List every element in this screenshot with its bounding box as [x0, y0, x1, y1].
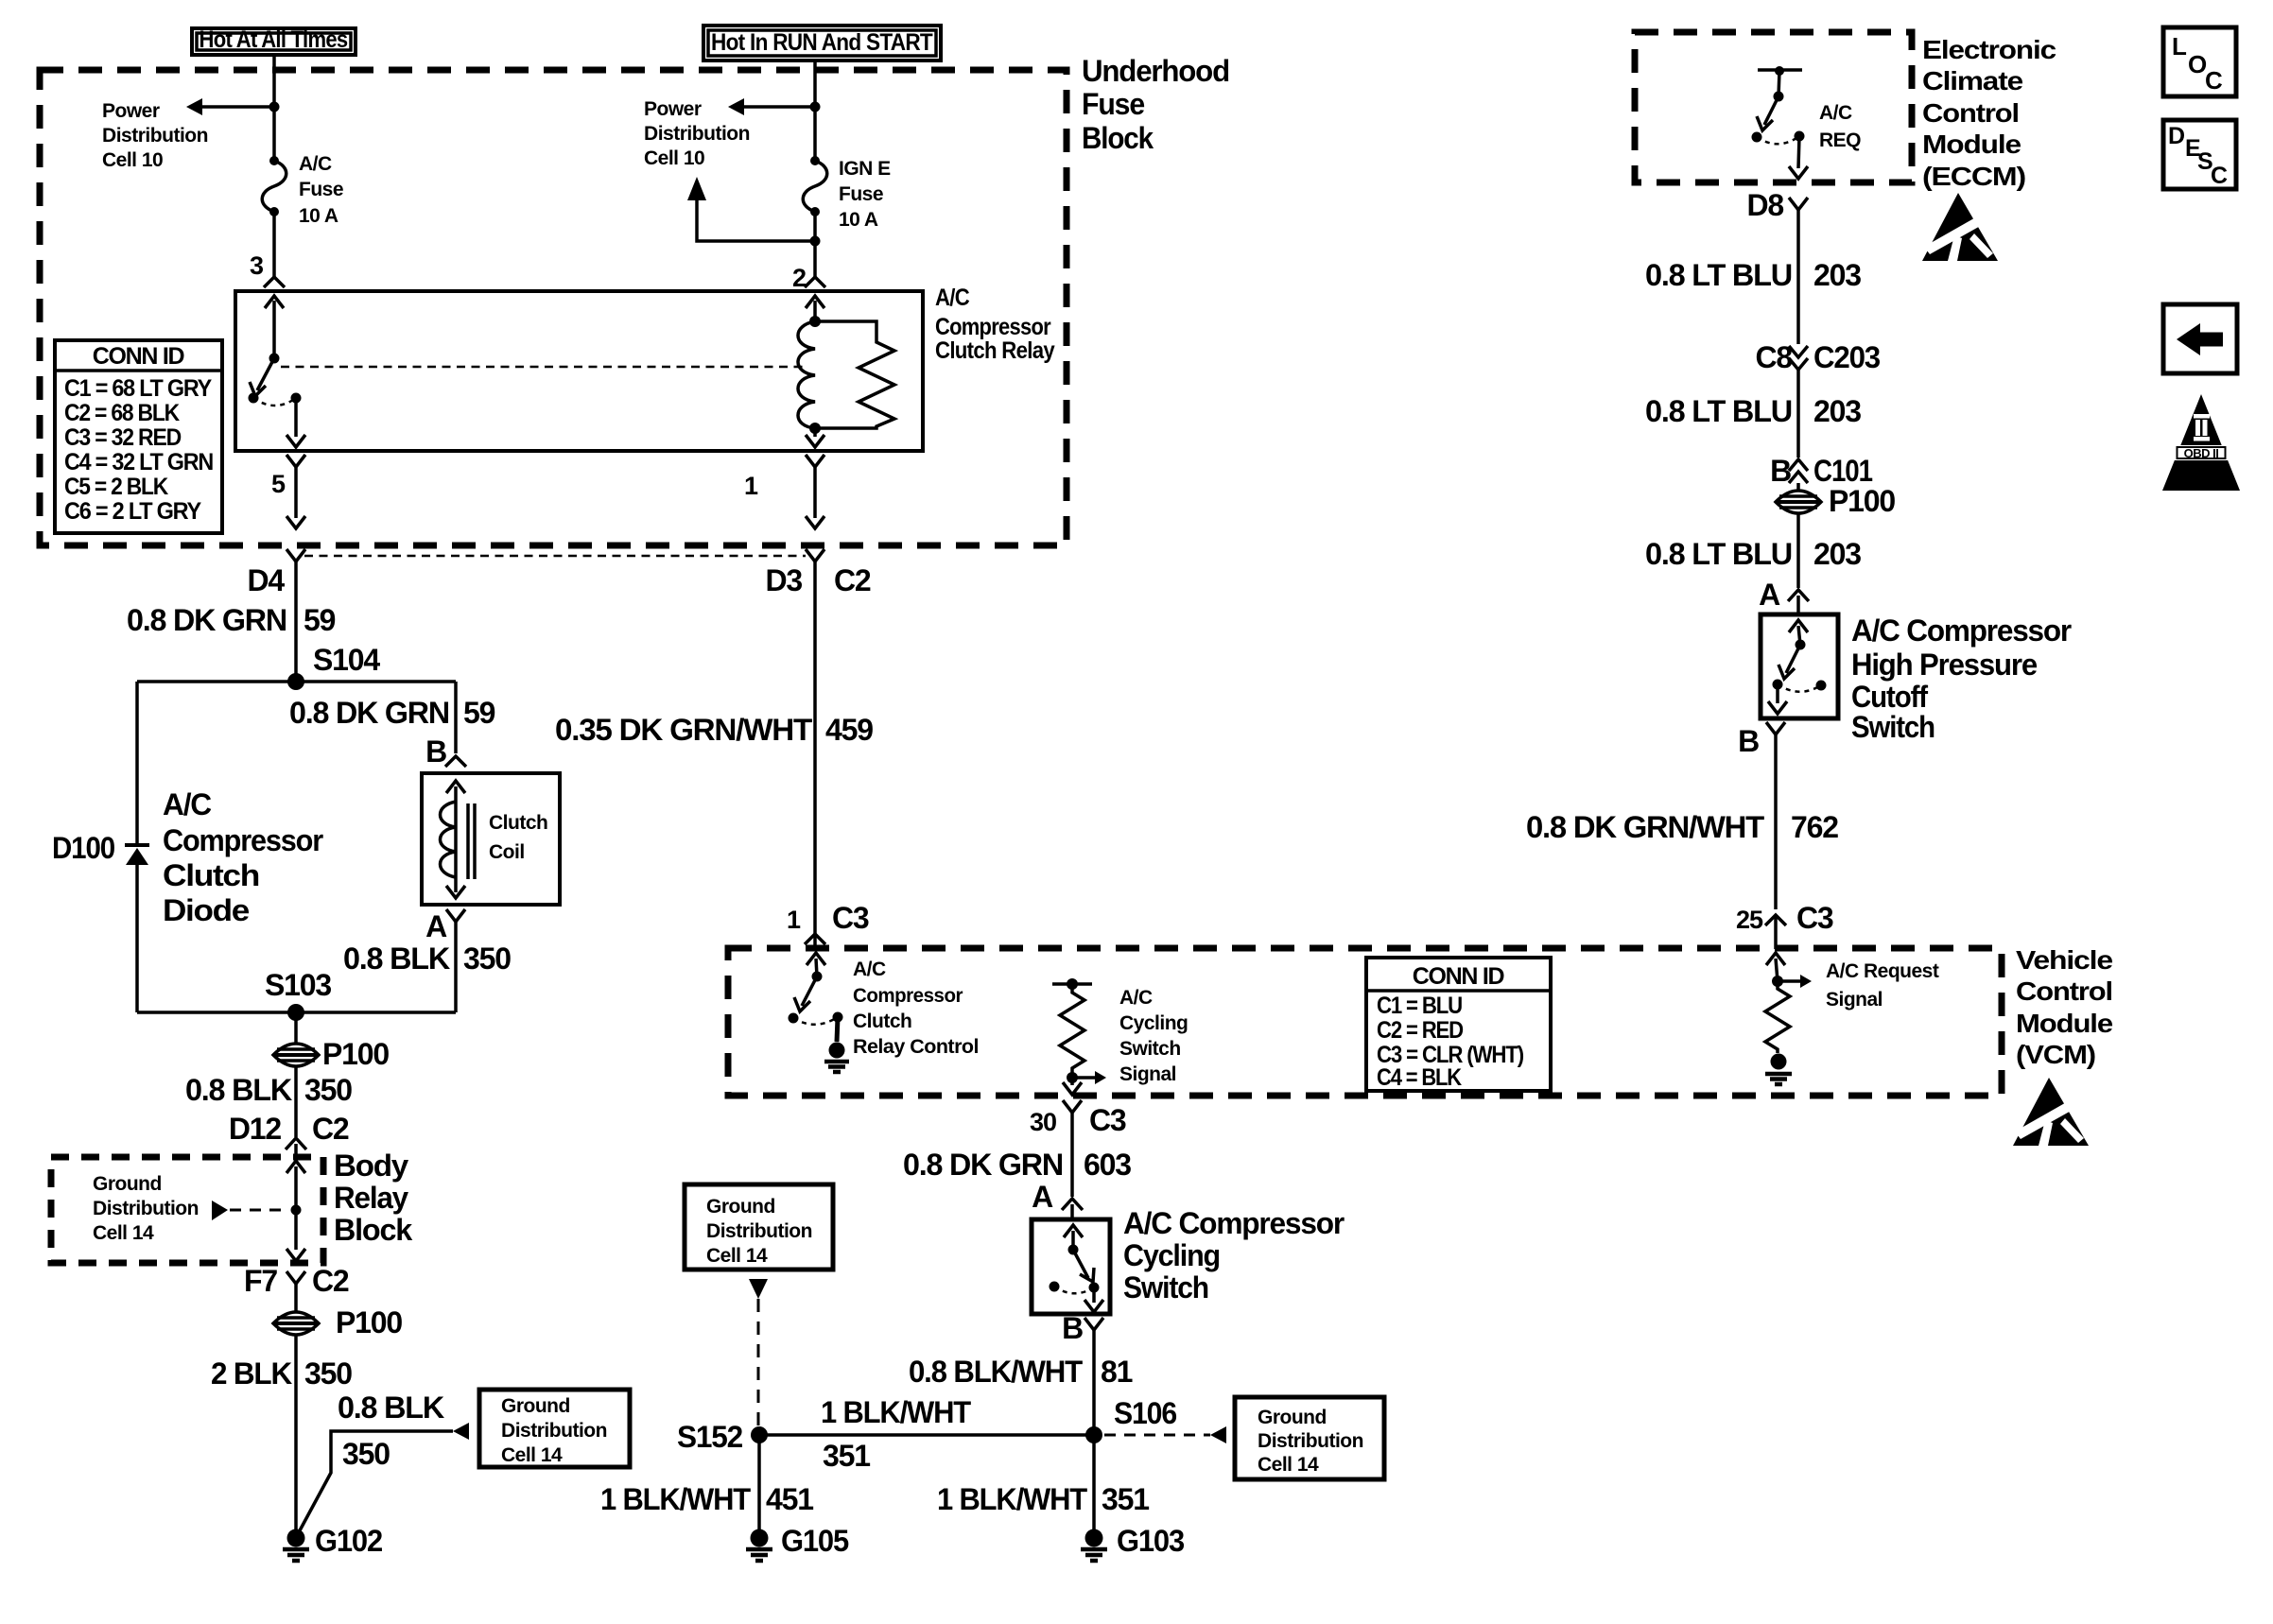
wire: left leg of loop — [135, 682, 139, 845]
svg-text:C3: C3 — [1089, 1103, 1126, 1137]
svg-text:203: 203 — [1813, 258, 1861, 292]
relay switch: arrow in from pin 3 — [265, 296, 284, 308]
wire: coil A down to S103 — [454, 922, 458, 1012]
wire down to B/C101 — [1796, 370, 1800, 458]
svg-text:F7: F7 — [244, 1264, 277, 1298]
relay switch contact (NC) — [249, 393, 259, 404]
wire to power distribution arrow (middle) — [744, 105, 815, 109]
svg-text:CONN ID: CONN ID — [1413, 963, 1504, 990]
connector Y at clutch coil A — [446, 909, 465, 922]
thin dashed connector tie line D4-D3 — [304, 555, 806, 558]
svg-text:Compressor: Compressor — [163, 823, 323, 857]
wire through body relay block — [286, 1161, 305, 1173]
svg-text:A: A — [1759, 578, 1780, 612]
svg-text:B: B — [1770, 454, 1791, 488]
svg-text:C2 = 68 BLK: C2 = 68 BLK — [64, 400, 180, 426]
svg-text:0.8 BLK: 0.8 BLK — [185, 1073, 292, 1107]
clutch coil internal arrows — [446, 781, 465, 793]
svg-text:C4 = BLK: C4 = BLK — [1377, 1064, 1462, 1091]
svg-text:D4: D4 — [247, 563, 285, 597]
wire to power distribution arrow — [202, 105, 274, 109]
switch blade — [1764, 96, 1778, 125]
svg-text:D12: D12 — [229, 1112, 282, 1146]
svg-text:Cutoff: Cutoff — [1851, 680, 1928, 714]
svg-text:351: 351 — [1102, 1482, 1149, 1516]
clutch coil L1 box — [422, 773, 560, 905]
svg-text:Vehicle: Vehicle — [2016, 945, 2112, 975]
svg-text:Power: Power — [102, 100, 160, 122]
label IGN E Fuse 10 A — [839, 158, 891, 231]
label Body Relay Block — [334, 1149, 412, 1247]
svg-text:Switch: Switch — [1119, 1038, 1181, 1060]
wire down to cycling switch A — [1070, 1113, 1074, 1197]
svg-text:C5 = 2 BLK: C5 = 2 BLK — [64, 474, 168, 500]
ESD symbol (ECCM) — [1922, 193, 1998, 261]
node: power distribution tap (left) — [269, 102, 280, 112]
svg-text:Body: Body — [334, 1149, 408, 1183]
svg-text:A/C: A/C — [1819, 102, 1852, 124]
connector Y below cycling switch — [1084, 1318, 1103, 1330]
svg-text:Distribution: Distribution — [93, 1198, 199, 1219]
wire S152 down to G105 — [757, 1435, 761, 1529]
svg-text:C4 = 32 LT GRN: C4 = 32 LT GRN — [64, 449, 213, 475]
svg-text:P100: P100 — [336, 1305, 402, 1339]
node: power distribution tap (middle) — [810, 102, 821, 112]
svg-text:Distribution: Distribution — [1258, 1430, 1363, 1452]
OBD II icon — [2162, 394, 2240, 491]
svg-text:Ground: Ground — [93, 1173, 162, 1195]
svg-text:G105: G105 — [781, 1524, 848, 1558]
svg-text:P100: P100 — [322, 1037, 389, 1071]
svg-text:203: 203 — [1813, 394, 1861, 428]
label Vehicle Control Module (VCM) — [2016, 945, 2112, 1069]
internal ground stub — [837, 1017, 838, 1042]
relay internal dashed actuation line — [281, 366, 803, 369]
svg-text:C2: C2 — [834, 563, 871, 597]
ground distribution cell 14 box (middle) — [685, 1184, 833, 1270]
dashed travel arc — [1757, 136, 1799, 144]
connector chevron at A — [1062, 1199, 1083, 1210]
svg-text:L: L — [2172, 32, 2187, 60]
svg-text:1 BLK/WHT: 1 BLK/WHT — [600, 1482, 752, 1516]
svg-text:C3: C3 — [1796, 901, 1833, 935]
svg-text:C2 = RED: C2 = RED — [1377, 1017, 1463, 1044]
svg-text:A: A — [425, 909, 447, 943]
wire: contact down to pin 5 with arrow — [294, 398, 298, 437]
svg-text:Signal: Signal — [1119, 1063, 1176, 1085]
ground distribution cell 14 box (left) — [479, 1390, 630, 1467]
svg-text:C101: C101 — [1813, 454, 1872, 488]
label Ground Distribution Cell 14 (in body relay block) — [93, 1173, 199, 1244]
svg-text:(VCM): (VCM) — [2016, 1040, 2095, 1069]
VCM internal: A/C request signal resistor — [1766, 953, 1785, 965]
connector D4/C2 below fuse block — [286, 549, 305, 561]
label Electronic Climate Control Module (ECCM) — [1922, 35, 2056, 191]
svg-text:Cycling: Cycling — [1123, 1238, 1220, 1272]
svg-text:Compressor: Compressor — [853, 985, 963, 1007]
svg-text:459: 459 — [825, 713, 873, 747]
ECCM dashed box — [1635, 32, 1912, 182]
svg-text:Coil: Coil — [489, 841, 525, 863]
svg-text:Cell 14: Cell 14 — [706, 1245, 768, 1267]
svg-text:B: B — [1062, 1311, 1083, 1345]
svg-text:Module: Module — [1922, 130, 2021, 159]
relay switch blade — [257, 358, 274, 390]
wire: fuse to relay pin 3 — [272, 212, 276, 279]
svg-text:350: 350 — [304, 1073, 352, 1107]
label A/C Compressor Cycling Switch — [1123, 1206, 1345, 1304]
svg-text:D100: D100 — [52, 831, 114, 865]
svg-text:Fuse: Fuse — [299, 179, 343, 200]
wire D4 down to S104 — [294, 561, 298, 682]
wire: label box down to IGN E fuse — [813, 60, 817, 161]
svg-text:351: 351 — [823, 1439, 870, 1473]
svg-text:C203: C203 — [1813, 340, 1880, 374]
svg-text:C3: C3 — [832, 901, 869, 935]
connector Y at relay pin 3 — [264, 277, 285, 287]
svg-text:25: 25 — [1736, 906, 1763, 934]
svg-text:Cell 14: Cell 14 — [93, 1222, 154, 1244]
wire down to VCM pin 25 — [1774, 734, 1778, 909]
dashed wire down to S152 — [757, 1299, 760, 1427]
VCM internal: cycling switch signal pull-up resistor — [1052, 982, 1092, 986]
underhood fuse block dashed box — [40, 70, 1067, 545]
wire S152 to S106 — [759, 1433, 1094, 1437]
connector chevron at A — [1788, 590, 1809, 601]
label A/C REQ — [1819, 102, 1861, 151]
wire: P100 down to G102 — [294, 1334, 298, 1529]
diode D100: A/C compressor clutch diode — [125, 845, 149, 865]
svg-text:Clutch: Clutch — [853, 1011, 911, 1032]
svg-text:350: 350 — [304, 1356, 352, 1391]
svg-text:10 A: 10 A — [839, 209, 878, 231]
svg-text:10 A: 10 A — [299, 205, 338, 227]
LOC icon — [2163, 27, 2236, 96]
svg-text:Cell 14: Cell 14 — [501, 1444, 563, 1466]
svg-text:Ground: Ground — [1258, 1407, 1327, 1428]
svg-text:D: D — [2168, 123, 2185, 149]
svg-text:S106: S106 — [1114, 1396, 1176, 1430]
svg-text:Clutch Relay: Clutch Relay — [935, 337, 1055, 364]
svg-text:0.8 LT BLU: 0.8 LT BLU — [1645, 537, 1792, 571]
label Power Distribution Cell 10 (left) — [102, 100, 208, 171]
svg-text:Cell 14: Cell 14 — [1258, 1454, 1319, 1476]
label Power Distribution Cell 10 (middle) — [644, 98, 750, 169]
svg-text:Fuse: Fuse — [839, 183, 883, 205]
svg-text:Distribution: Distribution — [706, 1220, 812, 1242]
wire pin 1 down — [813, 467, 817, 518]
label A/C Compressor Clutch Diode — [163, 787, 323, 927]
switch: A/C compressor high pressure cutoff switch box — [1761, 614, 1838, 718]
svg-text:P100: P100 — [1829, 484, 1895, 518]
triangle feed from ground distribution — [749, 1279, 768, 1299]
ground distribution cell 14 box (right) — [1235, 1397, 1384, 1479]
svg-text:Signal: Signal — [1826, 989, 1883, 1011]
connector Y into VCM — [805, 934, 825, 944]
svg-text:451: 451 — [766, 1482, 813, 1516]
dashed tie to ground distribution — [230, 1209, 289, 1212]
wire down with arrow to pin 30 — [1070, 1078, 1074, 1085]
connector P100 (grommet) — [273, 1044, 319, 1066]
svg-text:(ECCM): (ECCM) — [1922, 162, 2025, 191]
svg-text:30: 30 — [1030, 1108, 1056, 1136]
svg-text:Control: Control — [1922, 98, 2019, 128]
svg-text:Relay Control: Relay Control — [853, 1036, 979, 1058]
svg-text:203: 203 — [1813, 537, 1861, 571]
svg-text:0.8 LT BLU: 0.8 LT BLU — [1645, 394, 1792, 428]
svg-text:S152: S152 — [677, 1420, 742, 1454]
svg-text:A/C: A/C — [1119, 987, 1153, 1009]
svg-text:C6 = 2 LT GRY: C6 = 2 LT GRY — [64, 498, 202, 525]
svg-text:G102: G102 — [315, 1524, 382, 1558]
svg-text:C1 = BLU: C1 = BLU — [1377, 993, 1462, 1019]
svg-text:A/C: A/C — [853, 959, 886, 980]
ground G103 — [1081, 1529, 1107, 1562]
svg-text:2 BLK: 2 BLK — [211, 1356, 292, 1391]
svg-text:Power: Power — [644, 98, 702, 120]
svg-text:350: 350 — [463, 942, 511, 976]
ESD symbol (VCM) — [2013, 1078, 2089, 1146]
switch blade — [802, 976, 817, 1006]
dashed tie S106 to ground distribution — [1104, 1434, 1210, 1437]
svg-text:C8: C8 — [1755, 340, 1792, 374]
connector Y at relay pin 2 — [805, 277, 825, 287]
relay switch pivot — [269, 354, 280, 364]
svg-text:A/C: A/C — [935, 285, 970, 311]
label A/C Cycling Switch Signal — [1119, 987, 1188, 1085]
svg-text:0.8 BLK: 0.8 BLK — [338, 1391, 444, 1425]
svg-text:0.8 DK GRN: 0.8 DK GRN — [289, 696, 449, 730]
svg-text:1: 1 — [744, 472, 758, 500]
svg-text:Distribution: Distribution — [102, 125, 208, 147]
connector D3/C2 below fuse block — [806, 549, 824, 561]
svg-text:Control: Control — [2016, 976, 2112, 1006]
svg-text:Compressor: Compressor — [935, 314, 1051, 340]
svg-text:B: B — [425, 734, 446, 769]
svg-text:C2: C2 — [312, 1112, 349, 1146]
wire down to P100 — [1796, 483, 1800, 492]
DESC icon — [2163, 120, 2236, 189]
label A/C Fuse 10 A — [299, 153, 343, 227]
node: lower tap to power distribution cell 10 — [810, 236, 821, 247]
cycling switch internals — [1064, 1225, 1083, 1237]
svg-text:Ground: Ground — [706, 1196, 775, 1218]
svg-text:A/C Request: A/C Request — [1826, 960, 1939, 982]
svg-text:Climate: Climate — [1922, 66, 2022, 95]
wire to P100 lower — [294, 1284, 298, 1313]
resistor to ground — [1765, 981, 1790, 1053]
svg-text:Cycling: Cycling — [1119, 1012, 1188, 1034]
label A/C Compressor Clutch Relay Control — [853, 959, 979, 1058]
wire: branch to ground distribution (0.8 BLK 350) — [299, 1431, 453, 1532]
svg-text:IGN E: IGN E — [839, 158, 891, 180]
svg-text:Distribution: Distribution — [501, 1420, 607, 1442]
svg-text:Clutch: Clutch — [163, 858, 259, 892]
svg-text:C: C — [2205, 66, 2223, 95]
svg-text:A/C Compressor: A/C Compressor — [1123, 1206, 1345, 1240]
relay switch dashed travel arc — [253, 398, 296, 406]
svg-text:59: 59 — [463, 696, 495, 730]
svg-text:Clutch: Clutch — [489, 812, 547, 834]
svg-text:2: 2 — [792, 264, 806, 292]
wire: S103 down to P100 — [294, 1012, 298, 1045]
wire: fuse to relay pin 2 — [813, 212, 817, 279]
svg-text:Block: Block — [334, 1213, 412, 1247]
svg-text:A/C: A/C — [299, 153, 332, 175]
connector Y at relay pin 1 — [806, 455, 824, 467]
svg-text:1 BLK/WHT: 1 BLK/WHT — [937, 1482, 1088, 1516]
svg-text:0.8 DK GRN: 0.8 DK GRN — [127, 603, 286, 637]
label box Hot In RUN And START — [703, 26, 941, 60]
relay switch contact (output) — [291, 393, 302, 404]
svg-text:Switch: Switch — [1851, 710, 1935, 744]
svg-text:Switch: Switch — [1123, 1270, 1208, 1304]
svg-text:0.8 DK GRN: 0.8 DK GRN — [903, 1148, 1063, 1182]
svg-text:Module: Module — [2016, 1009, 2112, 1038]
wire S106 down to G103 — [1092, 1435, 1096, 1529]
svg-text:1 BLK/WHT: 1 BLK/WHT — [821, 1395, 972, 1429]
relay coil input arrow from pin 2 — [806, 296, 824, 308]
svg-text:350: 350 — [342, 1437, 390, 1471]
VCM internal: A/C compressor clutch relay control switch — [807, 953, 825, 965]
svg-text:D8: D8 — [1746, 188, 1783, 222]
connector Y into VCM right — [1765, 915, 1786, 925]
svg-text:0.35 DK GRN/WHT: 0.35 DK GRN/WHT — [555, 713, 813, 747]
svg-text:S104: S104 — [313, 643, 380, 677]
connector F7/C2 — [286, 1271, 305, 1284]
ECCM internal: A/C REQ switch — [1758, 68, 1802, 72]
svg-text:Diode: Diode — [163, 893, 249, 927]
svg-text:Cell 10: Cell 10 — [102, 149, 163, 171]
connector Y at relay pin 5 — [286, 455, 305, 467]
ground G102 — [283, 1529, 309, 1562]
svg-text:0.8 LT BLU: 0.8 LT BLU — [1645, 258, 1792, 292]
signal tap arrow — [1072, 1076, 1095, 1080]
svg-text:3: 3 — [250, 251, 264, 280]
svg-text:A/C Compressor: A/C Compressor — [1851, 613, 2072, 648]
wire: S104 horizontal loop top — [137, 680, 456, 683]
svg-text:Underhood: Underhood — [1082, 54, 1229, 88]
ground G105 — [746, 1529, 772, 1562]
wire: right leg down to clutch coil B — [454, 682, 458, 753]
wire down to cutoff switch A — [1796, 512, 1800, 588]
svg-text:1: 1 — [787, 906, 801, 934]
clutch coil winding — [441, 802, 457, 877]
svg-text:Relay: Relay — [334, 1181, 408, 1215]
dashed travel arc — [793, 1017, 838, 1025]
relay coil parallel resistor — [815, 321, 894, 428]
svg-text:Block: Block — [1082, 121, 1154, 155]
svg-text:High Pressure: High Pressure — [1851, 648, 2037, 682]
wire D3 down to VCM pin 1/C3 — [813, 561, 817, 934]
svg-text:Ground: Ground — [501, 1395, 570, 1417]
wire: P100 down to D12 — [294, 1065, 298, 1137]
wire pin 5 down — [294, 467, 298, 518]
svg-text:81: 81 — [1101, 1355, 1133, 1389]
wire: coil to pin 1 with arrow — [813, 428, 817, 437]
connector Y below cutoff switch — [1766, 722, 1785, 734]
svg-text:C2: C2 — [312, 1264, 349, 1298]
svg-text:603: 603 — [1084, 1148, 1131, 1182]
request tap arrow — [1778, 979, 1800, 983]
svg-text:0.8 DK GRN/WHT: 0.8 DK GRN/WHT — [1526, 810, 1765, 844]
fuse F2: IGN E Fuse 10 A — [803, 156, 827, 216]
wire down with arrow to D8 — [1798, 136, 1799, 168]
wire down to S106 — [1092, 1330, 1096, 1435]
cutoff switch internals — [1789, 620, 1808, 632]
label Underhood Fuse Block — [1082, 54, 1229, 155]
connector P100 (lower) — [273, 1312, 319, 1335]
svg-text:0.8 BLK/WHT: 0.8 BLK/WHT — [909, 1355, 1084, 1389]
svg-text:5: 5 — [271, 470, 286, 498]
svg-text:S103: S103 — [265, 968, 331, 1002]
svg-text:A: A — [1032, 1180, 1053, 1214]
fuse F1: A/C Fuse 10 A — [262, 156, 286, 216]
svg-text:0.8 BLK: 0.8 BLK — [343, 942, 450, 976]
svg-text:Hot In RUN And START: Hot In RUN And START — [711, 29, 932, 56]
svg-text:CONN ID: CONN ID — [93, 343, 184, 370]
label box Hot At All Times — [192, 26, 356, 55]
svg-text:Hot At All Times: Hot At All Times — [200, 26, 348, 53]
node: ground distribution tie — [291, 1205, 302, 1216]
svg-text:Electronic: Electronic — [1922, 35, 2056, 64]
label A/C Compressor Clutch Relay — [935, 285, 1055, 364]
svg-text:Cell 10: Cell 10 — [644, 147, 704, 169]
switch S: A/C compressor cycling switch box — [1032, 1219, 1110, 1314]
svg-text:59: 59 — [304, 603, 336, 637]
wire: branch left and up with arrow — [697, 200, 815, 241]
svg-text:Fuse: Fuse — [1082, 87, 1144, 121]
svg-text:B: B — [1738, 724, 1759, 758]
svg-text:A/C: A/C — [163, 787, 212, 821]
svg-text:REQ: REQ — [1819, 130, 1861, 151]
connector Y below VCM — [1063, 1100, 1082, 1113]
wire D8 down to C8/C203 — [1796, 210, 1800, 344]
back arrow icon — [2163, 304, 2237, 373]
relay coil — [798, 321, 815, 428]
svg-text:G103: G103 — [1117, 1524, 1184, 1558]
svg-text:C: C — [2211, 163, 2228, 189]
svg-text:762: 762 — [1791, 810, 1838, 844]
wire: Hot At All Times down to A/C fuse — [272, 55, 276, 161]
connector P100 (right) — [1776, 491, 1821, 513]
svg-text:C1 = 68 LT GRY: C1 = 68 LT GRY — [64, 375, 213, 402]
label A/C Request Signal — [1826, 960, 1939, 1011]
svg-text:Distribution: Distribution — [644, 123, 750, 145]
clutch coil core bars — [466, 803, 470, 879]
svg-text:OBD II: OBD II — [2184, 446, 2219, 460]
connector Y at clutch coil B — [445, 756, 466, 767]
svg-text:D3: D3 — [765, 563, 802, 597]
svg-text:C3 = 32 RED: C3 = 32 RED — [64, 424, 181, 451]
label A/C Compressor High Pressure Cutoff Switch — [1851, 613, 2072, 744]
